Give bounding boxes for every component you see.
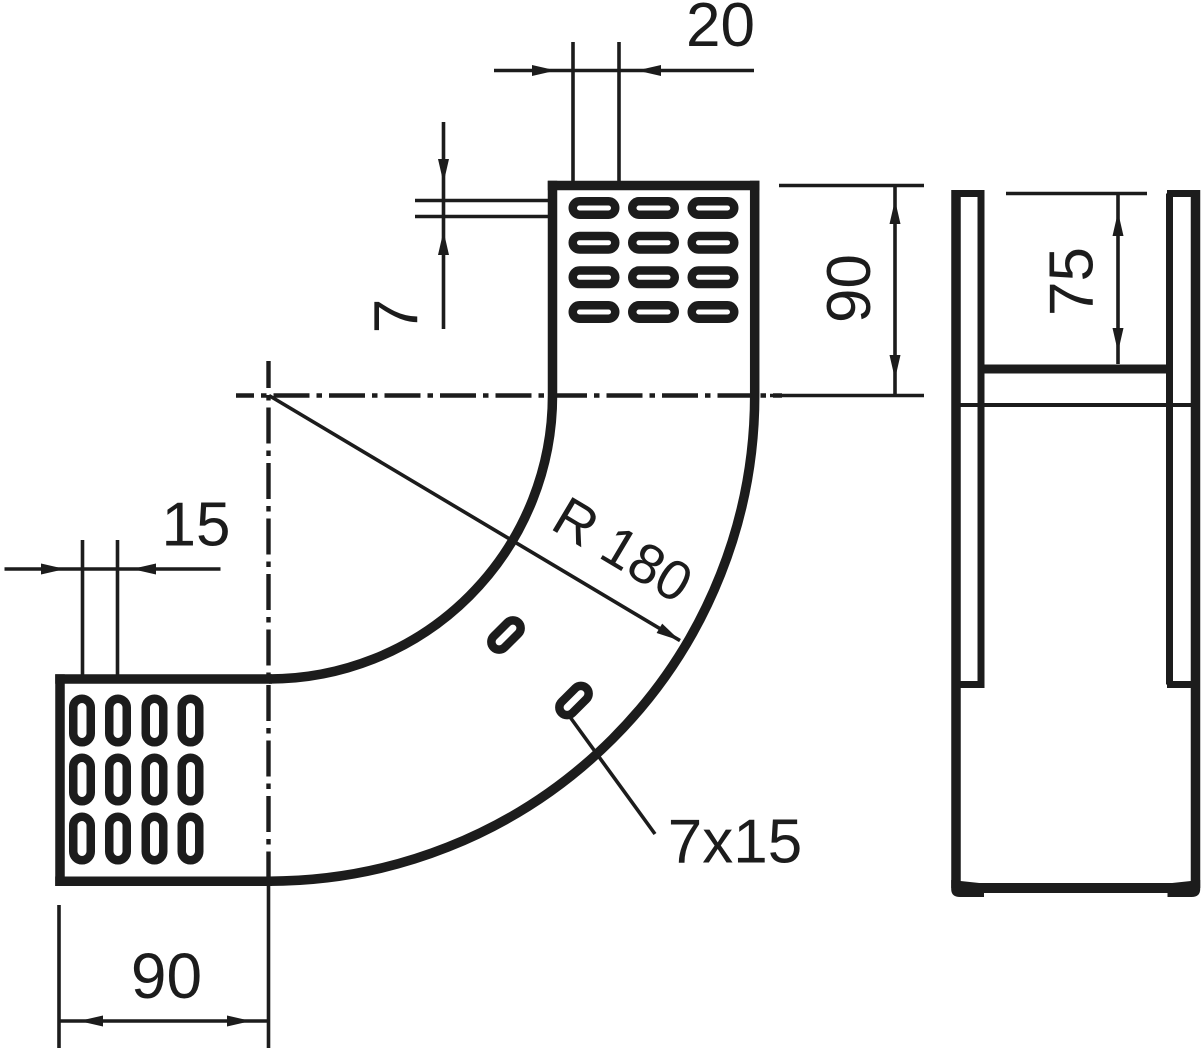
bend inner arc R180 — [269, 396, 553, 680]
slot bottom section row3 col3 — [146, 817, 164, 861]
side view left wall outer — [951, 190, 961, 888]
dim 7 label — [362, 299, 431, 333]
slot bottom section row1 col4 — [182, 699, 200, 743]
dim 20 line — [494, 69, 754, 73]
slot size 7x15 leader line — [570, 717, 655, 834]
horizontal centerline — [236, 393, 782, 397]
dim 15 line — [5, 567, 221, 571]
radius R180 label — [543, 484, 704, 615]
dim 90 right arrow up — [890, 200, 901, 224]
horizontal centerline solid extension — [770, 394, 924, 398]
bend slot 2 — [556, 683, 592, 719]
dim 15 extension line right — [116, 540, 120, 678]
dim 75 extension line top — [1006, 192, 1147, 196]
dim 90 bottom arrow right — [227, 1016, 251, 1027]
side view left rail top cap — [952, 190, 985, 197]
slot bottom section row2 col3 — [146, 758, 164, 802]
dim 7 arrow down — [438, 159, 449, 183]
tray bottom section top edge — [55, 674, 272, 684]
slot top section row3 col2 — [632, 271, 675, 285]
tray bottom section left edge — [55, 674, 65, 886]
dim 20 extension line right — [617, 42, 621, 181]
slot top section row1 col2 — [632, 201, 675, 215]
svg-text:20: 20 — [686, 0, 755, 60]
dim 15 label — [162, 491, 231, 560]
tray top section top edge — [548, 181, 760, 191]
slot top section row2 col2 — [632, 236, 675, 250]
svg-text:75: 75 — [1038, 247, 1107, 316]
tray bottom section bottom edge — [55, 876, 272, 886]
svg-text:R 180: R 180 — [543, 484, 704, 615]
side view right wall outer — [1191, 190, 1201, 888]
tray top section right edge — [750, 181, 760, 396]
slot size 7x15 label — [668, 808, 802, 877]
radius R180 arrowhead — [657, 624, 680, 641]
slot bottom section row1 col2 — [109, 699, 127, 743]
dim 20 arrow right — [637, 65, 661, 76]
slot bottom section row2 col4 — [182, 758, 200, 802]
side view right rail bottom cap — [1167, 681, 1196, 688]
side view bottom edge — [956, 883, 1196, 893]
side view left rail bottom cap — [956, 681, 985, 688]
dim 20 label — [686, 0, 755, 60]
dim 75 arrow up — [1113, 212, 1124, 236]
side view right rail top cap — [1167, 190, 1200, 197]
dim 15 arrow left — [41, 564, 65, 575]
side view right rail inner — [1166, 194, 1173, 685]
slot top section row2 col3 — [692, 236, 735, 250]
svg-text:7x15: 7x15 — [668, 808, 802, 877]
slot top section row2 col1 — [573, 236, 616, 250]
svg-text:90: 90 — [815, 254, 884, 323]
slot top section row4 col2 — [632, 305, 675, 319]
dim 7 arrow up — [438, 231, 449, 255]
slot bottom section row2 col2 — [109, 758, 127, 802]
dim 7 extension line bottom — [415, 215, 550, 219]
side view left foot — [951, 880, 984, 897]
dim 7 extension line top — [415, 199, 550, 203]
side view right foot — [1168, 880, 1201, 897]
bend slot 1 — [488, 617, 524, 653]
dim 90 right label — [815, 254, 884, 323]
slot bottom section row1 col3 — [146, 699, 164, 743]
dim 20 arrow left — [532, 65, 556, 76]
vertical centerline solid extension — [267, 884, 271, 1048]
dim 75 label — [1038, 247, 1107, 316]
dim 90 bottom label — [131, 940, 202, 1012]
tray top section left edge — [548, 181, 558, 396]
slot top section row1 col1 — [573, 201, 616, 215]
vertical centerline — [266, 361, 270, 884]
slot bottom section row3 col4 — [182, 817, 200, 861]
slot bottom section row3 col2 — [109, 817, 127, 861]
side view joint line — [960, 403, 1191, 407]
dim 75 line — [1116, 194, 1120, 365]
dim 15 extension line left — [81, 540, 85, 678]
svg-text:15: 15 — [162, 491, 231, 560]
dim 90 right arrow down — [890, 355, 901, 379]
slot bottom section row1 col1 — [73, 699, 91, 743]
dim 90 bottom line — [59, 1019, 268, 1023]
svg-text:90: 90 — [131, 940, 202, 1012]
slot top section row3 col1 — [573, 271, 616, 285]
dim 7 line — [442, 122, 446, 329]
dim 90 bottom extension line left — [57, 905, 61, 1048]
slot top section row1 col3 — [692, 201, 735, 215]
dim 90 right extension line top — [779, 184, 924, 188]
side view left rail inner — [978, 194, 985, 685]
dim 20 extension line left — [571, 42, 575, 181]
dim 90 bottom arrow left — [79, 1016, 103, 1027]
dim 90 right line — [893, 186, 897, 395]
slot bottom section row3 col1 — [73, 817, 91, 861]
dim 75 arrow down — [1113, 328, 1124, 352]
dim 15 arrow right — [132, 564, 156, 575]
radius R180 leader line — [269, 396, 680, 641]
slot top section row3 col3 — [692, 271, 735, 285]
slot top section row4 col3 — [692, 305, 735, 319]
bend outer arc — [269, 396, 755, 882]
slot bottom section row2 col1 — [73, 758, 91, 802]
svg-text:7: 7 — [362, 299, 431, 333]
slot top section row4 col1 — [573, 305, 616, 319]
side view tray bottom plate — [981, 365, 1170, 374]
